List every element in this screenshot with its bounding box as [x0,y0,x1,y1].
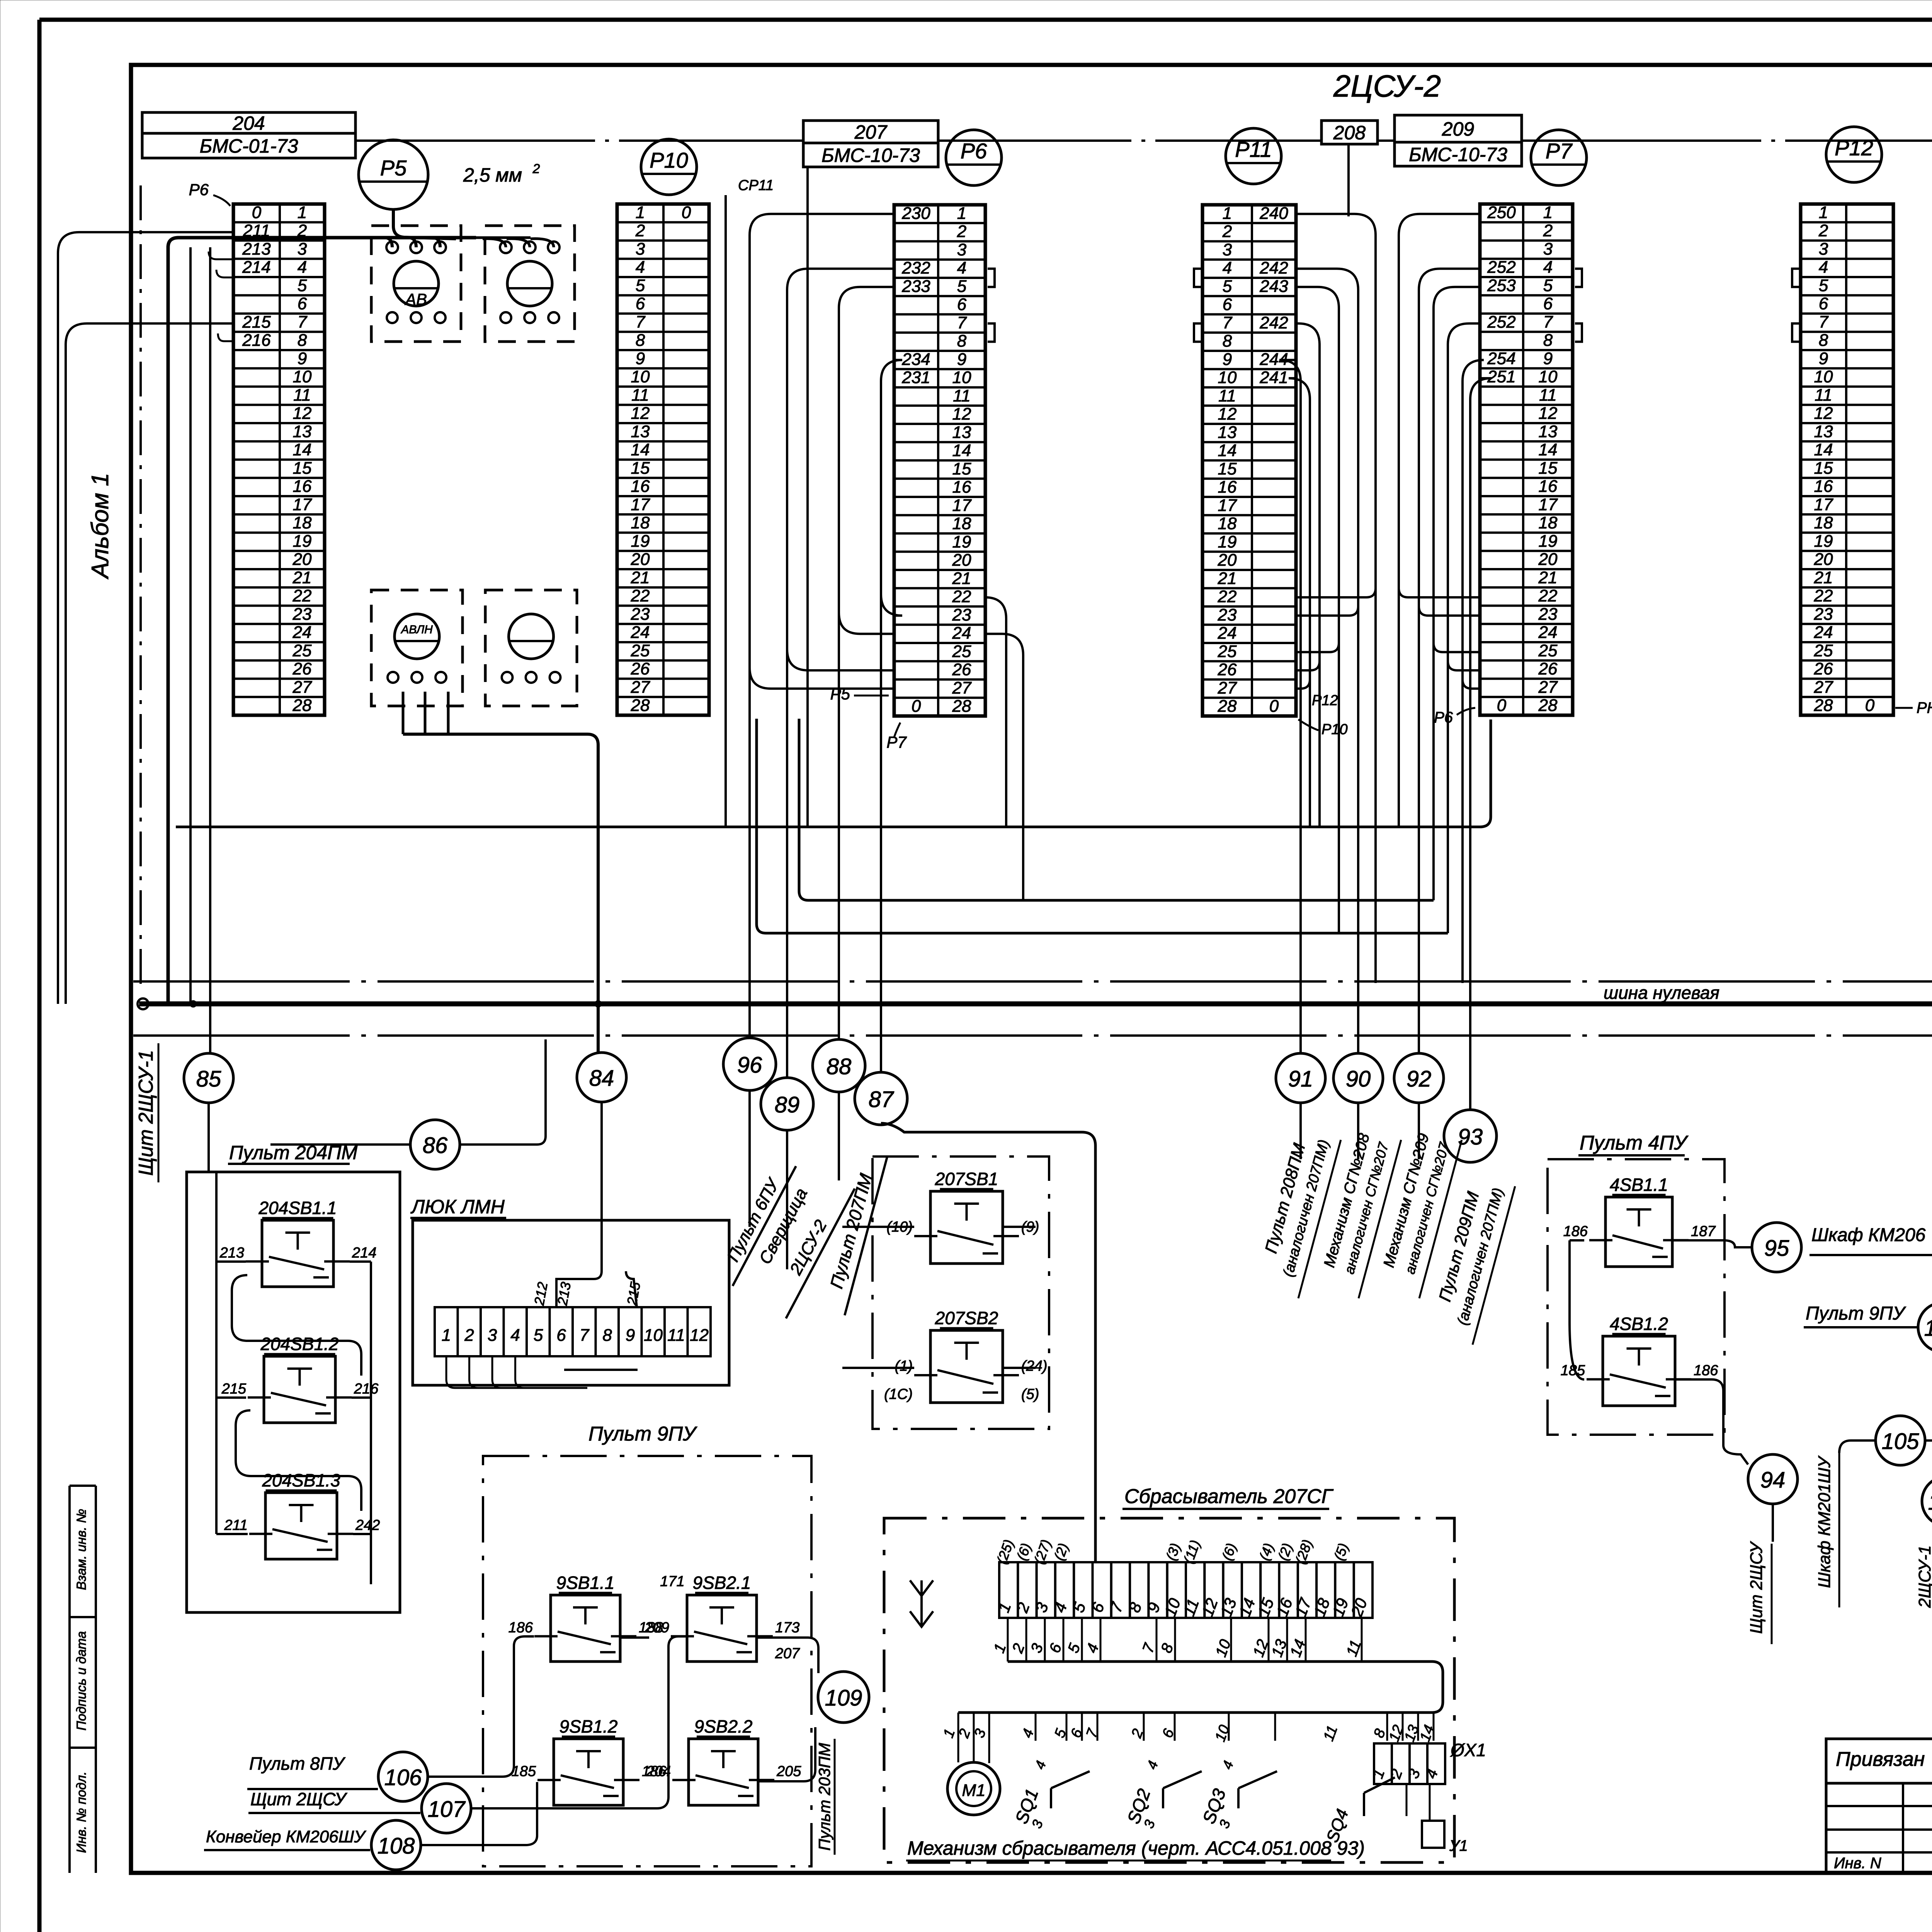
svg-text:10: 10 [293,367,312,386]
svg-text:13: 13 [1218,423,1237,442]
svg-text:185: 185 [512,1763,536,1779]
svg-text:4: 4 [1223,259,1232,277]
svg-text:26: 26 [1218,660,1237,679]
svg-text:15: 15 [1218,459,1237,478]
svg-text:207SB1: 207SB1 [935,1169,998,1189]
svg-text:ØX1: ØX1 [1450,1740,1486,1760]
svg-text:26: 26 [1538,660,1558,679]
svg-text:9: 9 [1543,349,1553,368]
svg-text:3: 3 [1819,240,1828,259]
svg-text:21: 21 [1218,569,1237,588]
svg-text:242: 242 [1259,313,1288,332]
svg-text:12: 12 [952,405,971,423]
svg-text:216: 216 [354,1381,379,1397]
svg-text:1: 1 [1819,203,1828,222]
svg-text:Шкаф КМ201ШУ: Шкаф КМ201ШУ [1815,1455,1834,1588]
svg-text:24: 24 [1814,623,1833,642]
svg-text:88: 88 [827,1054,852,1079]
svg-text:2: 2 [635,221,645,240]
svg-text:27: 27 [1218,679,1237,697]
svg-text:М1: М1 [962,1781,985,1800]
svg-text:11: 11 [1218,386,1236,405]
svg-text:22: 22 [952,587,971,606]
svg-text:Р5: Р5 [830,685,850,703]
svg-text:18: 18 [1539,514,1558,532]
svg-text:19: 19 [293,532,312,551]
svg-text:89: 89 [775,1092,800,1117]
svg-text:232: 232 [901,259,930,277]
svg-text:7: 7 [636,313,646,332]
svg-text:АВ: АВ [404,290,427,308]
svg-text:16: 16 [631,477,650,496]
svg-text:16: 16 [1539,477,1558,496]
svg-text:Сбрасыватель 207СГ: Сбрасыватель 207СГ [1124,1485,1334,1508]
svg-text:213: 213 [242,240,271,259]
svg-text:6: 6 [636,294,645,313]
svg-text:26: 26 [952,660,971,679]
svg-text:Р10: Р10 [650,148,688,172]
svg-text:5: 5 [1543,276,1553,295]
svg-text:204: 204 [646,1763,671,1779]
svg-text:7: 7 [1819,313,1829,332]
svg-text:17: 17 [952,496,972,515]
svg-text:6: 6 [957,295,967,314]
svg-text:17: 17 [293,495,312,514]
svg-text:23: 23 [1814,605,1833,624]
svg-text:12: 12 [1539,404,1558,423]
svg-text:10: 10 [1814,367,1833,386]
svg-text:27: 27 [293,678,312,697]
svg-text:1: 1 [442,1326,451,1345]
svg-text:5: 5 [298,276,307,295]
svg-text:Пульт 9ПУ: Пульт 9ПУ [588,1423,697,1445]
svg-text:У1: У1 [1449,1837,1468,1854]
svg-text:19: 19 [1814,532,1833,551]
svg-text:15: 15 [631,459,650,478]
svg-text:28: 28 [631,696,650,715]
svg-text:3: 3 [957,240,967,259]
svg-text:13: 13 [952,423,971,442]
svg-text:216: 216 [242,331,271,350]
svg-text:9SB2.2: 9SB2.2 [694,1716,753,1736]
svg-text:204SB1.1: 204SB1.1 [258,1198,337,1218]
svg-text:3: 3 [1223,240,1232,259]
svg-text:253: 253 [1487,276,1516,295]
svg-text:2ЦСУ-2: 2ЦСУ-2 [1333,69,1441,103]
svg-text:8: 8 [957,332,967,350]
svg-text:9: 9 [957,350,966,369]
svg-text:233: 233 [901,277,930,296]
svg-text:243: 243 [1259,277,1288,296]
svg-text:102: 102 [1928,1490,1932,1515]
svg-text:17: 17 [1218,496,1237,515]
svg-text:14: 14 [293,440,312,459]
svg-text:11: 11 [1539,386,1557,405]
svg-text:22: 22 [293,587,312,605]
svg-text:6: 6 [1543,294,1553,313]
svg-text:25: 25 [293,641,312,660]
svg-text:1: 1 [957,204,966,223]
svg-text:21: 21 [631,568,650,587]
svg-text:11: 11 [953,386,971,405]
svg-text:20: 20 [952,551,971,570]
svg-text:7: 7 [957,313,967,332]
svg-text:3: 3 [488,1326,497,1345]
svg-text:10: 10 [1218,368,1237,387]
svg-text:205: 205 [776,1763,801,1779]
svg-text:Пульт 204ПМ: Пульт 204ПМ [229,1142,357,1163]
svg-text:1: 1 [1543,203,1553,222]
svg-text:27: 27 [1814,678,1833,697]
svg-text:96: 96 [737,1053,762,1078]
svg-text:19: 19 [1539,532,1558,551]
svg-text:26: 26 [293,660,312,679]
svg-text:209: 209 [1442,118,1474,140]
svg-text:186: 186 [509,1619,533,1636]
svg-text:БМС-01-73: БМС-01-73 [200,135,298,157]
svg-text:5: 5 [534,1326,543,1345]
svg-text:9SB2.1: 9SB2.1 [693,1573,751,1593]
svg-text:14: 14 [631,440,650,459]
svg-text:Р12: Р12 [1835,136,1873,160]
svg-text:8: 8 [636,331,645,350]
svg-text:24: 24 [293,623,312,642]
svg-text:СР11: СР11 [738,177,774,194]
svg-text:0: 0 [1497,696,1507,715]
svg-text:10: 10 [1539,367,1558,386]
svg-text:171: 171 [660,1573,684,1590]
svg-text:204SB1.3: 204SB1.3 [262,1470,340,1490]
svg-text:16: 16 [293,477,312,496]
svg-text:24: 24 [631,623,650,642]
svg-text:1: 1 [636,203,645,222]
svg-text:Р11: Р11 [1235,137,1272,162]
svg-text:14: 14 [1539,440,1558,459]
svg-text:23: 23 [293,605,312,624]
svg-text:Р5: Р5 [380,156,407,180]
svg-text:Р6: Р6 [1434,709,1453,726]
svg-text:2: 2 [1818,221,1828,240]
svg-text:105: 105 [1882,1429,1920,1454]
svg-text:15: 15 [952,459,971,478]
svg-text:7: 7 [298,313,308,332]
svg-text:25: 25 [631,641,650,660]
svg-text:208: 208 [1333,122,1366,144]
svg-text:9SB1.1: 9SB1.1 [556,1573,615,1593]
svg-text:11: 11 [631,386,649,405]
svg-text:28: 28 [952,697,971,716]
svg-text:Пульт 9ПУ: Пульт 9ПУ [1806,1303,1906,1324]
svg-text:Р7: Р7 [886,733,907,751]
svg-text:ЛЮК ЛМН: ЛЮК ЛМН [410,1196,505,1218]
svg-text:6: 6 [1819,294,1828,313]
svg-text:9: 9 [298,349,307,368]
svg-text:27: 27 [1538,678,1558,697]
svg-text:252: 252 [1487,313,1515,332]
svg-text:23: 23 [1218,605,1237,624]
svg-text:204: 204 [232,112,265,134]
svg-text:18: 18 [293,514,312,532]
svg-text:9: 9 [1819,349,1828,368]
svg-text:23: 23 [1538,605,1558,624]
svg-text:(1): (1) [895,1358,913,1374]
svg-text:20: 20 [293,550,312,569]
svg-text:21: 21 [1814,568,1833,587]
svg-text:13: 13 [293,422,312,441]
svg-text:17: 17 [631,495,650,514]
svg-text:Инв. N: Инв. N [1834,1855,1881,1872]
svg-text:6: 6 [1223,295,1232,314]
svg-text:22: 22 [1218,587,1237,606]
svg-text:12: 12 [690,1326,709,1345]
svg-text:230: 230 [901,204,930,223]
svg-text:4: 4 [957,259,966,277]
svg-text:4: 4 [636,258,645,277]
svg-text:0: 0 [252,203,262,222]
svg-text:13: 13 [1814,422,1833,441]
svg-text:213: 213 [219,1245,244,1261]
svg-text:214: 214 [352,1245,376,1261]
svg-text:23: 23 [631,605,650,624]
svg-text:2,5 мм: 2,5 мм [463,164,522,186]
svg-text:17: 17 [1814,495,1833,514]
svg-text:8: 8 [602,1326,612,1345]
svg-text:27: 27 [952,679,972,697]
svg-text:5: 5 [1819,276,1828,295]
svg-text:22: 22 [1538,587,1558,605]
svg-text:Подпись и дата: Подпись и дата [74,1631,89,1730]
svg-text:11: 11 [667,1326,685,1345]
svg-text:28: 28 [1538,696,1558,715]
svg-text:20: 20 [1538,550,1558,569]
svg-text:18: 18 [952,514,971,533]
svg-text:(24): (24) [1021,1358,1048,1374]
svg-text:7: 7 [580,1326,590,1345]
svg-text:Р6: Р6 [961,139,987,163]
svg-text:Шкаф КМ206: Шкаф КМ206 [1811,1225,1926,1245]
svg-text:19: 19 [631,532,650,551]
svg-text:254: 254 [1487,349,1515,368]
svg-text:7: 7 [1543,313,1553,332]
svg-text:93: 93 [1458,1124,1483,1150]
svg-text:БМС-10-73: БМС-10-73 [1409,144,1507,165]
svg-text:84: 84 [589,1066,614,1091]
svg-text:8: 8 [1543,331,1553,350]
svg-text:25: 25 [1814,641,1833,660]
svg-text:2: 2 [957,222,966,241]
svg-text:1: 1 [1223,204,1232,223]
svg-text:2ЩСУ-1: 2ЩСУ-1 [1915,1545,1932,1608]
svg-text:3: 3 [1543,240,1553,259]
svg-text:24: 24 [1538,623,1558,642]
svg-text:231: 231 [901,368,930,387]
svg-text:12: 12 [293,404,312,423]
svg-text:187: 187 [1691,1223,1716,1240]
svg-text:26: 26 [631,660,650,679]
svg-text:БМС-10-73: БМС-10-73 [821,145,920,166]
svg-text:90: 90 [1346,1066,1371,1092]
svg-text:12: 12 [1814,404,1833,423]
svg-text:АВЛН: АВЛН [400,623,433,636]
svg-text:4SB1.1: 4SB1.1 [1610,1175,1668,1195]
svg-text:25: 25 [1218,642,1237,661]
svg-text:242: 242 [355,1517,380,1533]
svg-text:Механизм сбрасывателя (черт. А: Механизм сбрасывателя (черт. АСС4.051.00… [907,1837,1365,1859]
svg-text:2: 2 [1543,221,1553,240]
svg-text:5: 5 [636,276,645,295]
svg-text:Пульт 203ПМ: Пульт 203ПМ [815,1743,833,1851]
svg-text:9: 9 [626,1326,635,1345]
svg-text:108: 108 [378,1833,415,1859]
svg-text:16: 16 [1814,477,1833,496]
svg-text:2: 2 [464,1326,474,1345]
svg-text:186: 186 [1694,1362,1718,1379]
svg-text:22: 22 [631,587,650,605]
svg-text:Привязан: Привязан [1836,1748,1925,1770]
svg-text:215: 215 [242,313,271,332]
svg-text:Конвейер КМ206ШУ: Конвейер КМ206ШУ [206,1827,366,1846]
svg-text:204SB1.2: 204SB1.2 [260,1334,338,1354]
svg-text:8: 8 [298,331,307,350]
svg-text:3: 3 [298,240,307,259]
svg-text:207SB2: 207SB2 [935,1308,998,1328]
svg-text:11: 11 [293,386,311,405]
svg-text:5: 5 [1223,277,1232,296]
svg-text:18: 18 [1814,514,1833,532]
svg-text:21: 21 [1538,568,1558,587]
svg-text:209: 209 [645,1619,669,1636]
svg-text:207: 207 [854,121,888,143]
svg-text:(5): (5) [1021,1386,1039,1403]
svg-text:Щит 2ЩСУ: Щит 2ЩСУ [250,1789,348,1809]
svg-text:85: 85 [196,1066,221,1092]
svg-text:28: 28 [1814,696,1833,715]
svg-text:4: 4 [1819,258,1828,277]
svg-text:Щит 2ЩСУ-1: Щит 2ЩСУ-1 [135,1050,157,1176]
svg-text:86: 86 [423,1133,448,1158]
svg-text:234: 234 [901,350,930,369]
svg-text:207: 207 [775,1645,800,1662]
svg-text:23: 23 [952,605,971,624]
svg-text:Взам. инв. №: Взам. инв. № [74,1509,89,1590]
svg-text:Р10: Р10 [1321,721,1348,738]
svg-text:186: 186 [1563,1223,1588,1240]
svg-text:13: 13 [1539,422,1558,441]
svg-text:шина нулевая: шина нулевая [1604,983,1719,1003]
svg-text:24: 24 [952,624,971,643]
svg-text:Альбом 1: Альбом 1 [87,473,114,580]
svg-text:Р12: Р12 [1312,692,1338,709]
svg-text:8: 8 [1819,331,1828,350]
svg-text:Пульт 4ПУ: Пульт 4ПУ [1580,1132,1689,1154]
svg-text:16: 16 [1218,478,1237,497]
svg-text:4SB1.2: 4SB1.2 [1610,1314,1668,1334]
svg-text:13: 13 [631,422,650,441]
svg-text:250: 250 [1487,203,1516,222]
svg-text:4: 4 [1543,258,1553,277]
svg-text:28: 28 [1218,697,1237,716]
svg-text:27: 27 [631,678,650,697]
svg-text:6: 6 [298,294,307,313]
svg-text:2: 2 [1222,222,1232,241]
svg-text:25: 25 [1538,641,1558,660]
svg-text:28: 28 [293,696,312,715]
svg-text:0: 0 [1269,697,1279,716]
svg-text:251: 251 [1487,367,1515,386]
svg-text:9SB1.2: 9SB1.2 [560,1716,618,1736]
svg-text:95: 95 [1764,1236,1789,1261]
svg-text:173: 173 [775,1619,799,1636]
svg-text:РН: РН [1917,699,1932,716]
svg-text:19: 19 [952,532,971,551]
svg-text:211: 211 [224,1517,248,1533]
svg-text:8: 8 [1223,332,1232,350]
svg-text:11: 11 [1815,386,1832,405]
svg-text:Щит 2ЩСУ: Щит 2ЩСУ [1747,1541,1766,1634]
svg-text:14: 14 [952,441,971,460]
svg-text:92: 92 [1406,1066,1432,1092]
svg-text:215: 215 [221,1381,247,1397]
svg-text:12: 12 [631,404,650,423]
svg-text:2: 2 [532,162,540,176]
svg-text:9: 9 [1223,350,1232,369]
svg-text:(1С): (1С) [884,1386,913,1403]
svg-text:18: 18 [631,514,650,532]
svg-text:106: 106 [1924,1316,1932,1341]
svg-text:87: 87 [869,1087,895,1112]
svg-text:15: 15 [1814,459,1833,478]
svg-text:20: 20 [1218,551,1237,570]
svg-text:106: 106 [384,1765,422,1790]
svg-text:25: 25 [952,642,971,661]
svg-text:20: 20 [631,550,650,569]
svg-text:15: 15 [293,459,312,478]
svg-text:14: 14 [1814,440,1833,459]
svg-text:19: 19 [1218,532,1237,551]
svg-text:12: 12 [1218,405,1237,423]
svg-text:14: 14 [1218,441,1237,460]
svg-text:4: 4 [298,258,307,277]
svg-text:1: 1 [298,203,307,222]
svg-text:91: 91 [1288,1066,1313,1092]
svg-text:10: 10 [952,368,971,387]
svg-text:21: 21 [293,568,312,587]
svg-text:Инв. № подл.: Инв. № подл. [74,1772,89,1853]
svg-text:10: 10 [644,1326,663,1345]
svg-text:109: 109 [825,1685,862,1711]
svg-text:24: 24 [1218,624,1237,643]
svg-text:16: 16 [952,478,971,497]
svg-text:0: 0 [1865,696,1875,715]
svg-text:22: 22 [1814,587,1833,605]
svg-text:7: 7 [1223,313,1233,332]
svg-text:3: 3 [636,240,645,259]
svg-text:107: 107 [428,1797,466,1822]
svg-text:Р6: Р6 [189,180,209,199]
svg-text:0: 0 [912,697,921,716]
svg-text:20: 20 [1814,550,1833,569]
svg-text:Р7: Р7 [1546,139,1573,163]
svg-text:15: 15 [1539,459,1558,478]
svg-text:26: 26 [1814,660,1833,679]
svg-text:6: 6 [556,1326,566,1345]
svg-text:94: 94 [1760,1468,1786,1493]
svg-text:21: 21 [952,569,971,588]
svg-text:4: 4 [510,1326,520,1345]
svg-text:252: 252 [1487,258,1515,277]
svg-text:240: 240 [1259,204,1288,223]
svg-text:18: 18 [1218,514,1237,533]
